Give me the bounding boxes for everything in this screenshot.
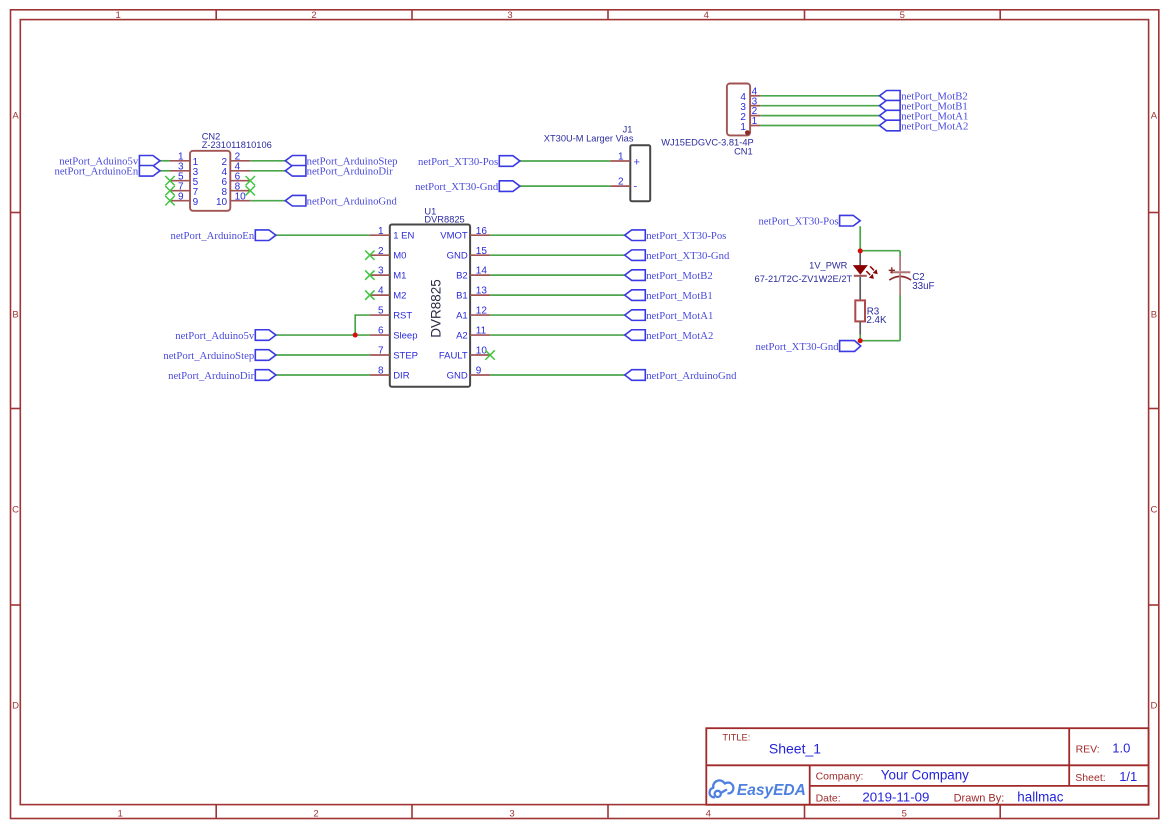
svg-text:Date:: Date: [816, 792, 841, 804]
svg-text:DIR: DIR [393, 370, 410, 381]
svg-text:netPort_XT30-Gnd: netPort_XT30-Gnd [755, 341, 839, 353]
svg-text:netPort_ArduinoEn: netPort_ArduinoEn [54, 166, 138, 178]
svg-text:9: 9 [178, 191, 184, 202]
svg-text:netPort_ArduinoEn: netPort_ArduinoEn [170, 230, 254, 242]
svg-text:Sheet:: Sheet: [1075, 772, 1105, 784]
svg-text:GND: GND [447, 251, 468, 262]
svg-text:netPort_MotA1: netPort_MotA1 [646, 310, 713, 322]
svg-text:STEP: STEP [393, 350, 418, 361]
svg-text:9: 9 [193, 197, 199, 208]
svg-text:33uF: 33uF [912, 281, 934, 292]
svg-text:EasyEDA: EasyEDA [737, 782, 806, 799]
svg-text:B1: B1 [456, 291, 468, 302]
svg-text:FAULT: FAULT [439, 350, 468, 361]
svg-text:5: 5 [378, 306, 384, 317]
svg-text:2.4K: 2.4K [866, 315, 887, 326]
svg-text:16: 16 [476, 226, 488, 237]
svg-text:netPort_MotA2: netPort_MotA2 [646, 330, 713, 342]
svg-text:B: B [1151, 310, 1157, 321]
svg-text:D: D [1150, 701, 1157, 712]
svg-text:Sheet_1: Sheet_1 [769, 741, 821, 757]
svg-text:VMOT: VMOT [440, 231, 468, 242]
svg-text:netPort_XT30-Gnd: netPort_XT30-Gnd [415, 181, 499, 193]
svg-text:10: 10 [235, 191, 247, 202]
svg-text:DVR8825: DVR8825 [424, 214, 464, 224]
svg-text:8: 8 [378, 366, 384, 377]
svg-text:2: 2 [618, 177, 624, 188]
svg-text:1: 1 [116, 10, 121, 21]
svg-text:4: 4 [704, 10, 709, 21]
svg-text:1: 1 [740, 122, 746, 133]
svg-text:1V_PWR: 1V_PWR [809, 260, 848, 270]
svg-text:2: 2 [311, 10, 316, 21]
svg-text:Your Company: Your Company [881, 768, 969, 783]
svg-text:A2: A2 [456, 330, 468, 341]
svg-text:D: D [12, 701, 19, 712]
svg-text:4: 4 [378, 286, 384, 297]
svg-text:netPort_Aduino5v: netPort_Aduino5v [175, 330, 255, 342]
svg-text:netPort_MotA2: netPort_MotA2 [901, 120, 968, 132]
svg-text:XT30U-M Larger Vias: XT30U-M Larger Vias [544, 134, 634, 144]
svg-text:Company:: Company: [816, 771, 864, 783]
svg-text:67-21/T2C-ZV1W2E/2T: 67-21/T2C-ZV1W2E/2T [755, 274, 853, 284]
svg-text:TITLE:: TITLE: [722, 732, 750, 742]
svg-text:netPort_XT30-Pos: netPort_XT30-Pos [646, 230, 726, 242]
svg-text:1: 1 [118, 809, 123, 820]
svg-text:14: 14 [476, 266, 488, 277]
svg-text:netPort_ArduinoDir: netPort_ArduinoDir [168, 370, 255, 382]
svg-text:11: 11 [476, 326, 487, 337]
svg-text:netPort_ArduinoGnd: netPort_ArduinoGnd [307, 196, 398, 208]
svg-text:9: 9 [476, 366, 482, 377]
svg-text:1: 1 [752, 116, 758, 127]
svg-text:15: 15 [476, 246, 488, 257]
svg-text:B2: B2 [456, 271, 468, 282]
svg-text:Sleep: Sleep [393, 330, 417, 341]
svg-text:netPort_ArduinoGnd: netPort_ArduinoGnd [646, 370, 737, 382]
svg-text:hallmac: hallmac [1017, 789, 1063, 804]
svg-text:3: 3 [378, 266, 384, 277]
svg-text:4: 4 [706, 809, 711, 820]
svg-text:M0: M0 [393, 251, 406, 262]
svg-text:7: 7 [378, 346, 384, 357]
svg-text:2: 2 [378, 246, 384, 257]
svg-text:M1: M1 [393, 271, 406, 282]
svg-text:A: A [12, 110, 19, 121]
svg-text:+: + [634, 157, 640, 169]
svg-text:C: C [12, 505, 19, 516]
svg-text:Z-231011810106: Z-231011810106 [202, 140, 272, 150]
svg-text:10: 10 [216, 197, 228, 208]
svg-text:CN1: CN1 [734, 147, 753, 157]
svg-text:6: 6 [378, 326, 384, 337]
svg-text:5: 5 [900, 10, 905, 21]
svg-text:12: 12 [476, 306, 488, 317]
svg-text:A1: A1 [456, 310, 468, 321]
svg-text:2: 2 [313, 809, 318, 820]
svg-text:-: - [634, 180, 638, 192]
svg-text:RST: RST [393, 310, 412, 321]
svg-text:2019-11-09: 2019-11-09 [862, 789, 929, 804]
svg-text:1/1: 1/1 [1119, 769, 1137, 784]
svg-text:3: 3 [507, 10, 512, 21]
svg-text:DVR8825: DVR8825 [428, 279, 443, 338]
svg-text:1: 1 [378, 226, 384, 237]
svg-text:C: C [1150, 505, 1157, 516]
svg-text:netPort_MotB2: netPort_MotB2 [646, 270, 713, 282]
svg-text:netPort_ArduinoStep: netPort_ArduinoStep [163, 350, 254, 362]
svg-text:netPort_XT30-Gnd: netPort_XT30-Gnd [646, 250, 730, 262]
svg-text:REV:: REV: [1076, 744, 1100, 756]
svg-text:netPort_ArduinoDir: netPort_ArduinoDir [307, 166, 394, 178]
svg-text:B: B [12, 310, 18, 321]
svg-text:GND: GND [447, 370, 468, 381]
svg-text:Drawn By:: Drawn By: [954, 792, 1005, 804]
svg-text:1: 1 [618, 152, 624, 163]
svg-text:A: A [1151, 110, 1158, 121]
svg-text:1.0: 1.0 [1112, 741, 1130, 756]
svg-text:netPort_XT30-Pos: netPort_XT30-Pos [758, 216, 838, 228]
svg-text:1 EN: 1 EN [393, 231, 414, 242]
svg-text:M2: M2 [393, 291, 406, 302]
svg-text:13: 13 [476, 286, 488, 297]
svg-text:netPort_MotB1: netPort_MotB1 [646, 290, 713, 302]
svg-text:5: 5 [902, 809, 907, 820]
svg-text:netPort_XT30-Pos: netPort_XT30-Pos [418, 156, 498, 168]
svg-text:3: 3 [509, 809, 514, 820]
